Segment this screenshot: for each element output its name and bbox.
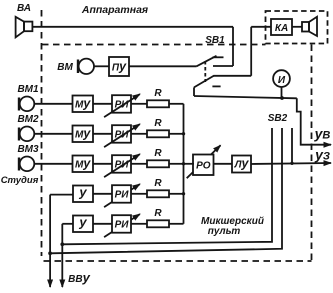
svg-text:РО: РО (196, 161, 211, 172)
room border dashed right (311, 45, 313, 262)
junction h1 (60, 242, 64, 246)
svg-text:у: у (78, 215, 87, 230)
summing bus (183, 104, 185, 224)
svg-text:пульт: пульт (208, 226, 241, 237)
amplifier LU (232, 156, 251, 173)
svg-text:ВМ: ВМ (57, 62, 73, 73)
KA dashed box (266, 11, 328, 44)
wire to UV output (297, 98, 331, 144)
amplifier MU1 (73, 96, 94, 113)
svg-text:SB1: SB1 (205, 35, 225, 46)
svg-text:R: R (154, 178, 162, 189)
amplifier U4 (73, 185, 93, 203)
switch SB1 pole 1 blade (197, 56, 217, 67)
svg-text:Му: Му (75, 97, 91, 111)
switch SB1 pole 1 contact bar (213, 56, 224, 58)
svg-text:Лу: Лу (234, 157, 250, 171)
svg-text:ВМ3: ВМ3 (17, 144, 39, 155)
wire R1 to bus (169, 103, 184, 105)
svg-text:РИ: РИ (115, 220, 130, 231)
microphone BM1 (19, 97, 34, 112)
wire RO to LU (214, 163, 233, 165)
indicator I (273, 70, 290, 87)
svg-text:РИ: РИ (115, 190, 130, 201)
svg-text:И: И (278, 75, 286, 86)
svg-text:SB2: SB2 (268, 113, 288, 124)
switch SB1 pole 2 open mark (212, 85, 220, 87)
room border dashed top (42, 44, 266, 46)
svg-text:ВА: ВА (17, 3, 31, 14)
wire BM3 to MU3 (34, 163, 72, 165)
wire SB1 pole 2 to KA (250, 27, 252, 76)
wire SB1 pole 1 to BA line (232, 27, 234, 66)
room border dashed bottom (44, 260, 312, 262)
output line UZ (251, 163, 331, 164)
resistor R3 (147, 160, 169, 167)
amplifier MU3 (73, 156, 94, 173)
wire SB1 to SB2 bus (194, 96, 297, 98)
junction UZ wire c (290, 162, 293, 165)
resistor R4 (147, 190, 169, 197)
svg-text:R: R (154, 88, 162, 99)
loudspeaker BA (16, 17, 33, 38)
wire U4 to RI4 (93, 193, 112, 195)
regulator RO (187, 145, 221, 178)
svg-text:Студия: Студия (1, 175, 39, 186)
svg-text:КА: КА (275, 23, 288, 34)
wire KA to speaker (292, 26, 302, 28)
regulator RI3 (104, 154, 140, 177)
svg-text:Му: Му (75, 157, 91, 171)
wire U4 input (50, 194, 72, 196)
microphone BM (78, 59, 94, 74)
regulator RI2 (104, 124, 140, 147)
wire R2 to bus (169, 133, 184, 135)
loudspeaker KA (302, 17, 317, 36)
svg-text:Му: Му (75, 127, 91, 141)
wire BM1 to MU1 (34, 103, 72, 105)
resistor R5 (147, 220, 169, 227)
wire R4 to bus (169, 193, 184, 195)
svg-text:Аппаратная: Аппаратная (81, 4, 148, 16)
wire BM2 to MU2 (34, 133, 72, 135)
wire bus to RO (184, 163, 195, 165)
wire MU2 to RI2 (93, 133, 112, 135)
switch SB1 pole 1 fixed wire (213, 65, 233, 67)
wire U5 input (62, 223, 72, 225)
wire R3 to bus (169, 163, 184, 165)
svg-text:R: R (154, 148, 162, 159)
switch SB1 link dashed (204, 61, 206, 82)
switch SB1 pole 2 blade (194, 76, 214, 88)
svg-text:ВМ2: ВМ2 (17, 114, 39, 125)
wire BA to SB1 (33, 26, 234, 28)
switch SB1 pole 2 fixed wire (214, 75, 252, 77)
amplifier MU2 (73, 126, 94, 143)
wire PU to SB1 (129, 65, 197, 67)
svg-text:R: R (154, 208, 162, 219)
junction bus row3 (182, 162, 185, 165)
amplifier U5 (73, 215, 93, 233)
wire RI3 to R3 (131, 163, 147, 165)
microphone BM2 (19, 127, 34, 142)
wire U5 to RI5 (93, 223, 112, 225)
regulator RI4 (104, 184, 140, 207)
junction h2 (48, 251, 52, 255)
preamp PU (109, 57, 129, 76)
wire SB1 pole 2 down (193, 87, 195, 96)
junction indicator (280, 96, 284, 100)
microphone BM3 (19, 157, 34, 172)
svg-text:Пу: Пу (112, 60, 127, 74)
studio wall dashed (41, 10, 43, 256)
wire RI5 to R5 (131, 223, 147, 225)
wire BM to PU (94, 65, 109, 67)
wire RI2 to R2 (131, 133, 147, 135)
wire VVU 2 (61, 224, 63, 287)
wire VVU 1 (49, 195, 51, 287)
junction bus row2 (182, 132, 185, 135)
svg-text:ВМ1: ВМ1 (17, 84, 39, 95)
resistor R1 (147, 100, 169, 107)
wire MU3 to RI3 (93, 163, 112, 165)
regulator RI1 (104, 94, 140, 117)
wire indicator I (281, 87, 283, 98)
wire RI1 to R1 (131, 103, 147, 105)
switch SB2 wire b (50, 128, 282, 253)
wire MU1 to RI1 (93, 103, 112, 105)
switch SB2 wire c (291, 128, 293, 163)
switch SB2 wire a (62, 128, 272, 244)
wire R5 to bus (169, 223, 184, 225)
resistor R2 (147, 130, 169, 137)
junction bus row4 (182, 192, 185, 195)
amplifier KA (271, 19, 292, 35)
regulator RI5 (104, 214, 140, 237)
svg-text:у: у (78, 185, 87, 200)
wire RI4 to R4 (131, 193, 147, 195)
svg-text:R: R (154, 118, 162, 129)
